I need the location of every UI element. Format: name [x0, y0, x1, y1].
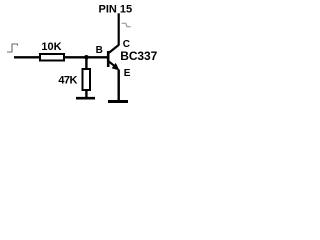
svg-text:PIN 15: PIN 15 — [99, 3, 133, 15]
output pulse waveform symbol — [122, 23, 131, 26]
node: base junction dot — [84, 55, 89, 60]
transistor Q1 emitter diagonal with arrow — [108, 61, 120, 71]
svg-text:C: C — [123, 39, 130, 50]
wire: input to R1 — [14, 56, 40, 58]
wire: collector up to PIN 15 — [118, 13, 120, 45]
resistor R2 47K body — [83, 69, 91, 90]
resistor R1 10K body — [40, 54, 64, 61]
svg-text:BC337: BC337 — [120, 49, 157, 63]
svg-text:47K: 47K — [58, 75, 77, 87]
svg-text:E: E — [124, 68, 131, 79]
transistor Q1 base bar — [107, 51, 110, 67]
input pulse waveform symbol — [7, 44, 18, 52]
ground (emitter) — [108, 100, 128, 103]
ground (under R2) — [76, 97, 95, 100]
transistor Q1 collector diagonal — [108, 45, 119, 54]
wire: junction down to R2 — [85, 57, 87, 69]
wire: R1 to transistor base through junction — [65, 56, 108, 58]
wire: R2 to ground — [85, 90, 87, 98]
wire: emitter down to ground — [117, 70, 119, 101]
svg-text:B: B — [96, 45, 103, 56]
svg-text:10K: 10K — [41, 41, 61, 53]
